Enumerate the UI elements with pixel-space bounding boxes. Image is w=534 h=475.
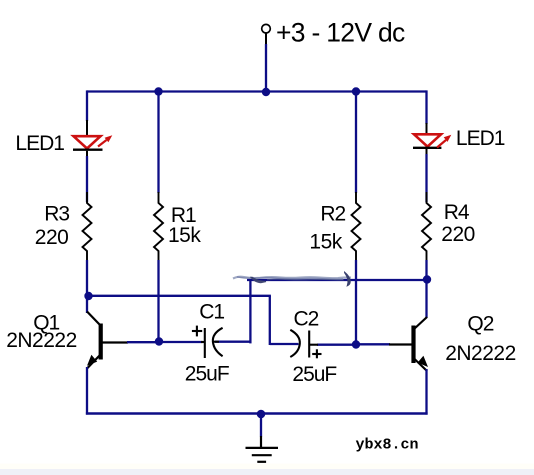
node: Q1 collector junction [84,292,92,300]
wire: LED1 to R3 [86,151,88,202]
power terminal circle [262,24,271,33]
wire: Q1 base junction to C1 [159,341,203,343]
footer band [0,464,534,470]
wire: right branch top (rail to LED2) [425,90,427,135]
node: Q2 collector junction [423,275,431,283]
transistor Q2 [356,317,428,371]
svg-text:220: 220 [35,226,69,249]
svg-text:LED1: LED1 [15,132,64,155]
wire: R1 to Q1 base junction [157,260,159,342]
resistor R2 [352,192,361,261]
svg-text:25uF: 25uF [292,363,336,386]
wire: Q2 emitter to bottom rail [425,369,427,415]
svg-text:15k: 15k [309,230,342,253]
wire: Q1 collector to C2 (cross-coupling) [89,296,299,345]
LED LED2 (right, labeled LED1) [413,134,451,148]
svg-text:C2: C2 [294,307,319,330]
svg-text:220: 220 [441,223,475,246]
wire: Q1 emitter to bottom rail [86,367,88,415]
wire: R2 branch upper [355,92,357,194]
ground [246,414,279,462]
wire: power stem [265,33,267,91]
wire: R1 branch upper [157,92,159,194]
transistor Q1 [87,312,159,369]
node: Q1 base junction [155,337,163,345]
wire: C2 to Q2 base junction [317,344,356,346]
svg-text:ybx8.cn: ybx8.cn [356,437,419,454]
node: Q2 base junction [352,340,360,348]
svg-text:2N2222: 2N2222 [445,342,516,365]
svg-text:LED1: LED1 [456,127,505,150]
wire: left branch top (rail to LED1) [86,90,88,137]
node: ground junction [257,410,266,419]
resistor R3 [83,192,92,261]
svg-text:R2: R2 [320,202,345,225]
svg-text:+3 - 12V dc: +3 - 12V dc [276,18,405,48]
node: rail / power junction [262,88,270,96]
wire: R4 to Q2 collector [425,260,427,318]
svg-text:R4: R4 [444,201,470,224]
svg-text:C1: C1 [199,301,224,324]
wire: top rail [87,90,427,92]
wire: R3 to Q1 collector [86,260,88,313]
capacitor C2 [290,330,321,359]
svg-text:15k: 15k [168,224,201,247]
svg-text:25uF: 25uF [185,363,229,386]
wire: cross-coupling Q2 collector to C1 [247,280,427,343]
wire: LED2 to R4 [426,149,428,202]
svg-text:2N2222: 2N2222 [6,329,77,352]
node: rail / R1 junction [154,87,162,95]
svg-text:R3: R3 [44,202,69,225]
wire: bottom rail [86,412,428,415]
LED LED1 (left) [73,135,112,149]
wire: C1 to cross riser [215,341,252,343]
wire: R2 to Q2 base junction [355,260,357,345]
resistor R1 [154,192,163,261]
capacitor C1 [192,326,223,358]
svg-text:Q2: Q2 [467,312,493,335]
node: rail / R2 junction [352,87,360,95]
scribble annotation [233,272,351,286]
resistor R4 [422,192,431,261]
